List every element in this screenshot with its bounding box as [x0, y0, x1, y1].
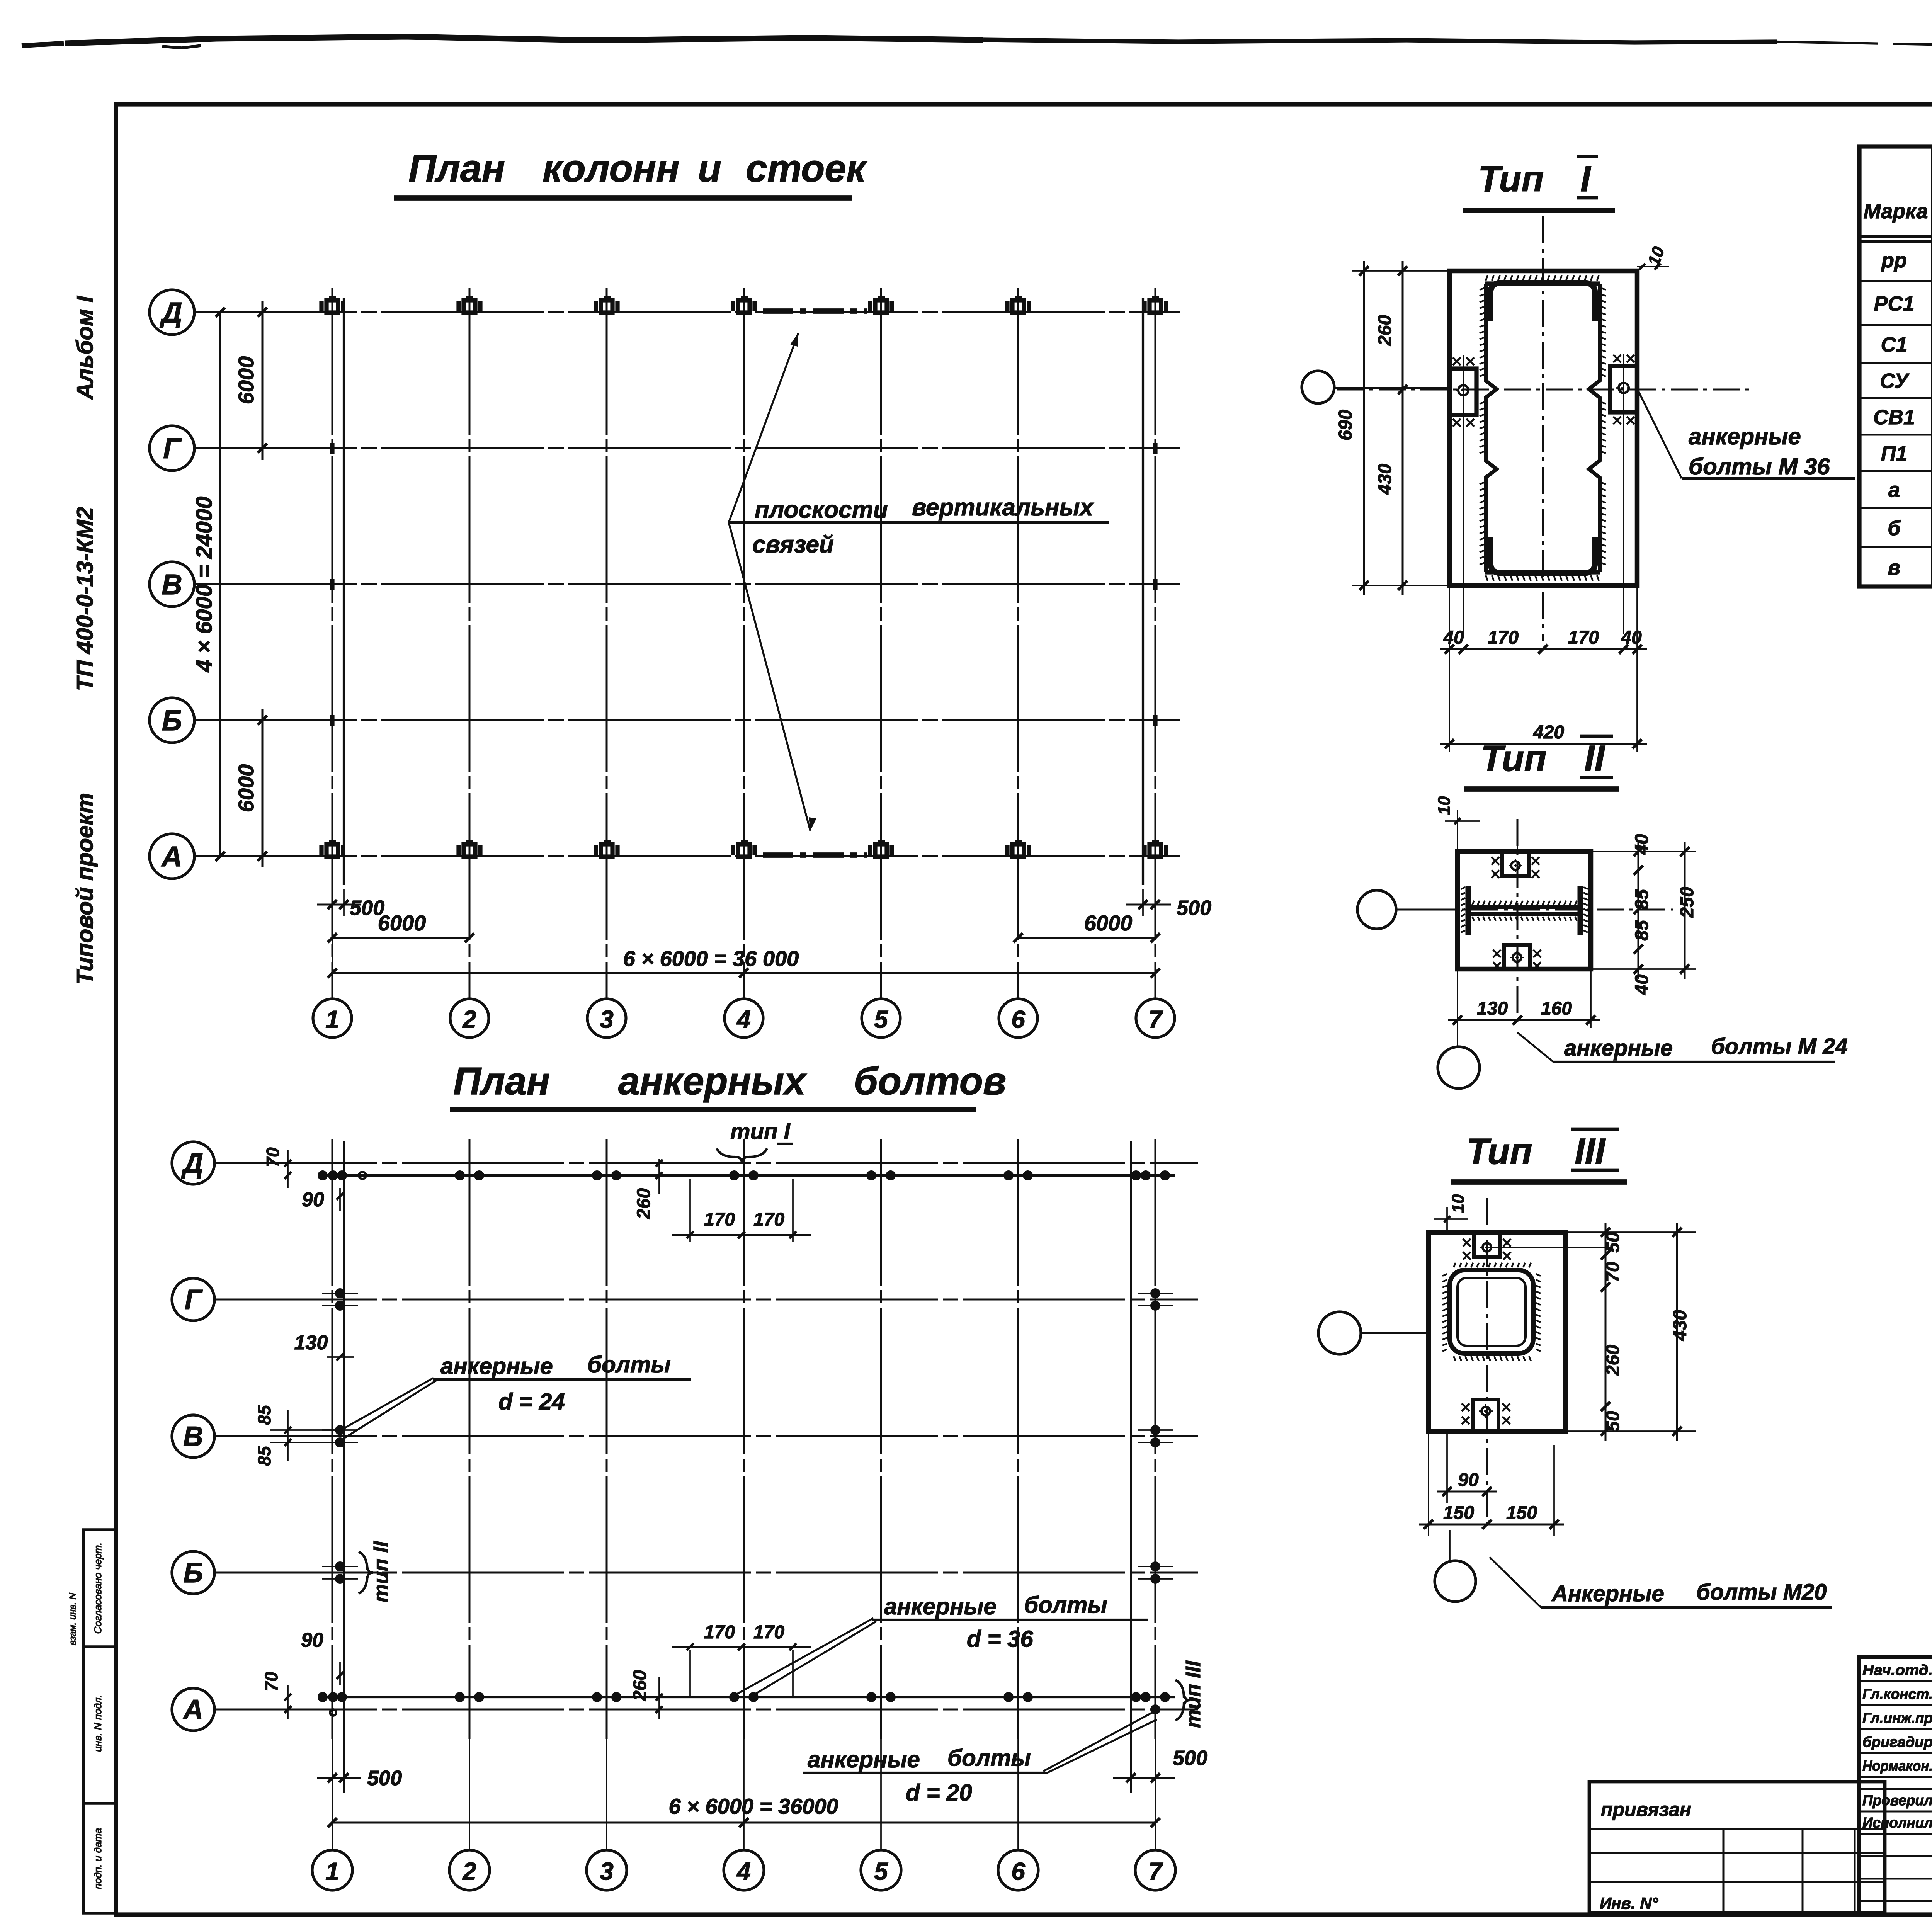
svg-text:10: 10 [1449, 1194, 1468, 1213]
svg-text:260: 260 [630, 1670, 650, 1701]
svg-text:90: 90 [301, 1629, 323, 1651]
svg-text:500: 500 [1177, 896, 1211, 920]
svg-text:Тип: Тип [1481, 738, 1546, 779]
svg-text:85: 85 [1632, 920, 1652, 941]
svg-text:70: 70 [1603, 1262, 1623, 1282]
svg-text:и: и [698, 147, 721, 190]
svg-text:Альбом I: Альбом I [72, 296, 98, 400]
svg-text:4 × 6000 = 24000: 4 × 6000 = 24000 [192, 497, 217, 673]
svg-text:6: 6 [1011, 1857, 1025, 1885]
svg-text:колонн: колонн [543, 147, 680, 190]
svg-text:СУ: СУ [1880, 369, 1910, 393]
svg-text:анкерные: анкерные [808, 1747, 920, 1772]
svg-text:500: 500 [1173, 1747, 1207, 1770]
svg-text:10: 10 [1435, 796, 1454, 815]
svg-text:Д: Д [181, 1148, 203, 1179]
svg-text:А: А [182, 1694, 203, 1725]
svg-text:Тип: Тип [1478, 158, 1544, 199]
svg-text:170: 170 [704, 1622, 735, 1643]
svg-text:d = 20: d = 20 [906, 1780, 972, 1806]
svg-text:3: 3 [600, 1857, 614, 1885]
svg-text:6000: 6000 [234, 764, 258, 813]
svg-text:ТП 400-0-13-КМ2: ТП 400-0-13-КМ2 [72, 507, 98, 691]
svg-text:6 × 6000 = 36000: 6 × 6000 = 36000 [668, 1794, 838, 1818]
svg-text:III: III [1575, 1131, 1606, 1172]
svg-text:Б: Б [162, 704, 182, 736]
svg-text:Г: Г [185, 1284, 203, 1315]
svg-text:6000: 6000 [1084, 911, 1133, 935]
svg-text:40: 40 [1632, 974, 1652, 995]
svg-text:40: 40 [1621, 628, 1642, 648]
svg-text:РС1: РС1 [1874, 292, 1914, 315]
svg-text:3: 3 [600, 1005, 614, 1033]
svg-text:Д: Д [159, 296, 182, 328]
svg-text:2: 2 [462, 1857, 476, 1885]
svg-text:анкерных: анкерных [618, 1060, 807, 1103]
svg-text:рр: рр [1881, 249, 1907, 272]
svg-text:4: 4 [736, 1005, 751, 1033]
svg-text:болты М 24: болты М 24 [1711, 1034, 1848, 1059]
svg-text:Гл.инж.пр: Гл.инж.пр [1862, 1710, 1932, 1726]
svg-text:90: 90 [1458, 1470, 1479, 1490]
svg-text:150: 150 [1506, 1503, 1537, 1523]
svg-text:Б: Б [184, 1558, 203, 1588]
svg-text:а: а [1888, 478, 1900, 502]
svg-text:анкерные: анкерные [1689, 423, 1801, 449]
svg-text:170: 170 [1488, 628, 1519, 648]
svg-text:40: 40 [1443, 628, 1464, 648]
svg-text:1: 1 [325, 1005, 339, 1033]
svg-text:Тип: Тип [1466, 1131, 1532, 1172]
svg-text:160: 160 [1541, 998, 1572, 1019]
svg-text:Согласовано черт.: Согласовано черт. [92, 1543, 104, 1634]
svg-text:стоек: стоек [746, 147, 867, 190]
svg-text:связей: связей [752, 531, 834, 558]
svg-text:В: В [183, 1421, 203, 1452]
svg-text:d = 24: d = 24 [498, 1389, 565, 1415]
svg-text:в: в [1888, 556, 1901, 579]
svg-text:болты: болты [947, 1745, 1031, 1771]
svg-text:Г: Г [163, 432, 182, 464]
svg-text:40: 40 [1632, 834, 1652, 855]
svg-text:85: 85 [254, 1405, 274, 1425]
svg-text:взам. инв. N: взам. инв. N [68, 1592, 78, 1645]
svg-text:привязан: привязан [1601, 1799, 1691, 1820]
svg-text:1: 1 [325, 1857, 339, 1885]
svg-text:Гл.конст.: Гл.конст. [1862, 1686, 1932, 1702]
svg-text:Типовой проект: Типовой проект [72, 793, 98, 985]
svg-text:250: 250 [1677, 887, 1697, 918]
svg-text:7: 7 [1148, 1857, 1163, 1885]
svg-text:анкерные: анкерные [1564, 1036, 1673, 1061]
svg-text:690: 690 [1335, 410, 1356, 440]
svg-text:бригадир: бригадир [1862, 1734, 1932, 1750]
svg-text:7: 7 [1148, 1005, 1163, 1033]
svg-text:болты М20: болты М20 [1696, 1580, 1827, 1605]
svg-text:170: 170 [704, 1209, 735, 1230]
svg-text:Нормакон.: Нормакон. [1862, 1758, 1932, 1774]
svg-text:5: 5 [874, 1857, 888, 1885]
svg-text:А: А [161, 840, 182, 872]
svg-text:6 × 6000 = 36 000: 6 × 6000 = 36 000 [623, 946, 799, 971]
svg-text:П1: П1 [1881, 442, 1908, 465]
svg-text:6: 6 [1011, 1005, 1025, 1033]
svg-text:Анкерные: Анкерные [1551, 1581, 1664, 1606]
svg-text:болты: болты [587, 1352, 671, 1378]
svg-text:болты М 36: болты М 36 [1689, 454, 1830, 480]
svg-text:50: 50 [1603, 1411, 1623, 1432]
svg-text:болты: болты [1024, 1592, 1107, 1618]
svg-text:6000: 6000 [234, 356, 258, 405]
svg-text:260: 260 [634, 1188, 654, 1219]
svg-text:170: 170 [753, 1622, 784, 1643]
svg-text:130: 130 [1477, 998, 1508, 1019]
svg-text:тип II: тип II [369, 1541, 393, 1603]
svg-text:260: 260 [1375, 315, 1395, 346]
svg-text:плоскости: плоскости [755, 497, 888, 523]
svg-text:СВ1: СВ1 [1873, 406, 1915, 429]
svg-text:План: План [453, 1060, 550, 1103]
svg-text:430: 430 [1670, 1310, 1690, 1341]
svg-text:В: В [162, 568, 182, 600]
svg-text:С1: С1 [1881, 333, 1907, 356]
svg-text:4: 4 [736, 1857, 751, 1885]
svg-text:Инв. N°: Инв. N° [1600, 1894, 1659, 1912]
svg-text:Нач.отд.: Нач.отд. [1862, 1662, 1932, 1679]
svg-text:анкерные: анкерные [440, 1353, 553, 1379]
svg-text:50: 50 [1603, 1232, 1623, 1253]
svg-text:130: 130 [294, 1332, 328, 1354]
svg-text:85: 85 [1632, 889, 1652, 910]
svg-text:170: 170 [753, 1209, 784, 1230]
svg-text:II: II [1584, 738, 1605, 779]
svg-text:болтов: болтов [854, 1060, 1006, 1103]
svg-text:500: 500 [367, 1767, 402, 1790]
svg-text:430: 430 [1375, 464, 1395, 495]
svg-text:План: План [408, 147, 505, 190]
svg-text:Проверил: Проверил [1862, 1793, 1932, 1809]
svg-text:вертикальных: вертикальных [912, 494, 1094, 521]
svg-text:70: 70 [261, 1672, 281, 1692]
svg-text:d = 36: d = 36 [967, 1626, 1033, 1652]
svg-text:90: 90 [302, 1189, 324, 1211]
svg-text:85: 85 [254, 1446, 274, 1466]
svg-text:анкерные: анкерные [884, 1594, 997, 1619]
svg-text:170: 170 [1568, 628, 1599, 648]
svg-text:б: б [1888, 517, 1901, 540]
svg-text:Марка: Марка [1864, 200, 1928, 223]
svg-text:6000: 6000 [378, 911, 426, 935]
svg-text:инв. N подл.: инв. N подл. [92, 1695, 104, 1752]
svg-text:тип I: тип I [730, 1119, 791, 1144]
svg-text:тип III: тип III [1182, 1660, 1205, 1728]
svg-text:5: 5 [874, 1005, 888, 1033]
svg-text:I: I [1580, 158, 1592, 199]
svg-text:260: 260 [1603, 1345, 1623, 1376]
svg-text:150: 150 [1443, 1503, 1474, 1523]
svg-text:2: 2 [462, 1005, 476, 1033]
svg-text:подп. и дата: подп. и дата [92, 1828, 104, 1889]
svg-text:70: 70 [263, 1147, 283, 1167]
